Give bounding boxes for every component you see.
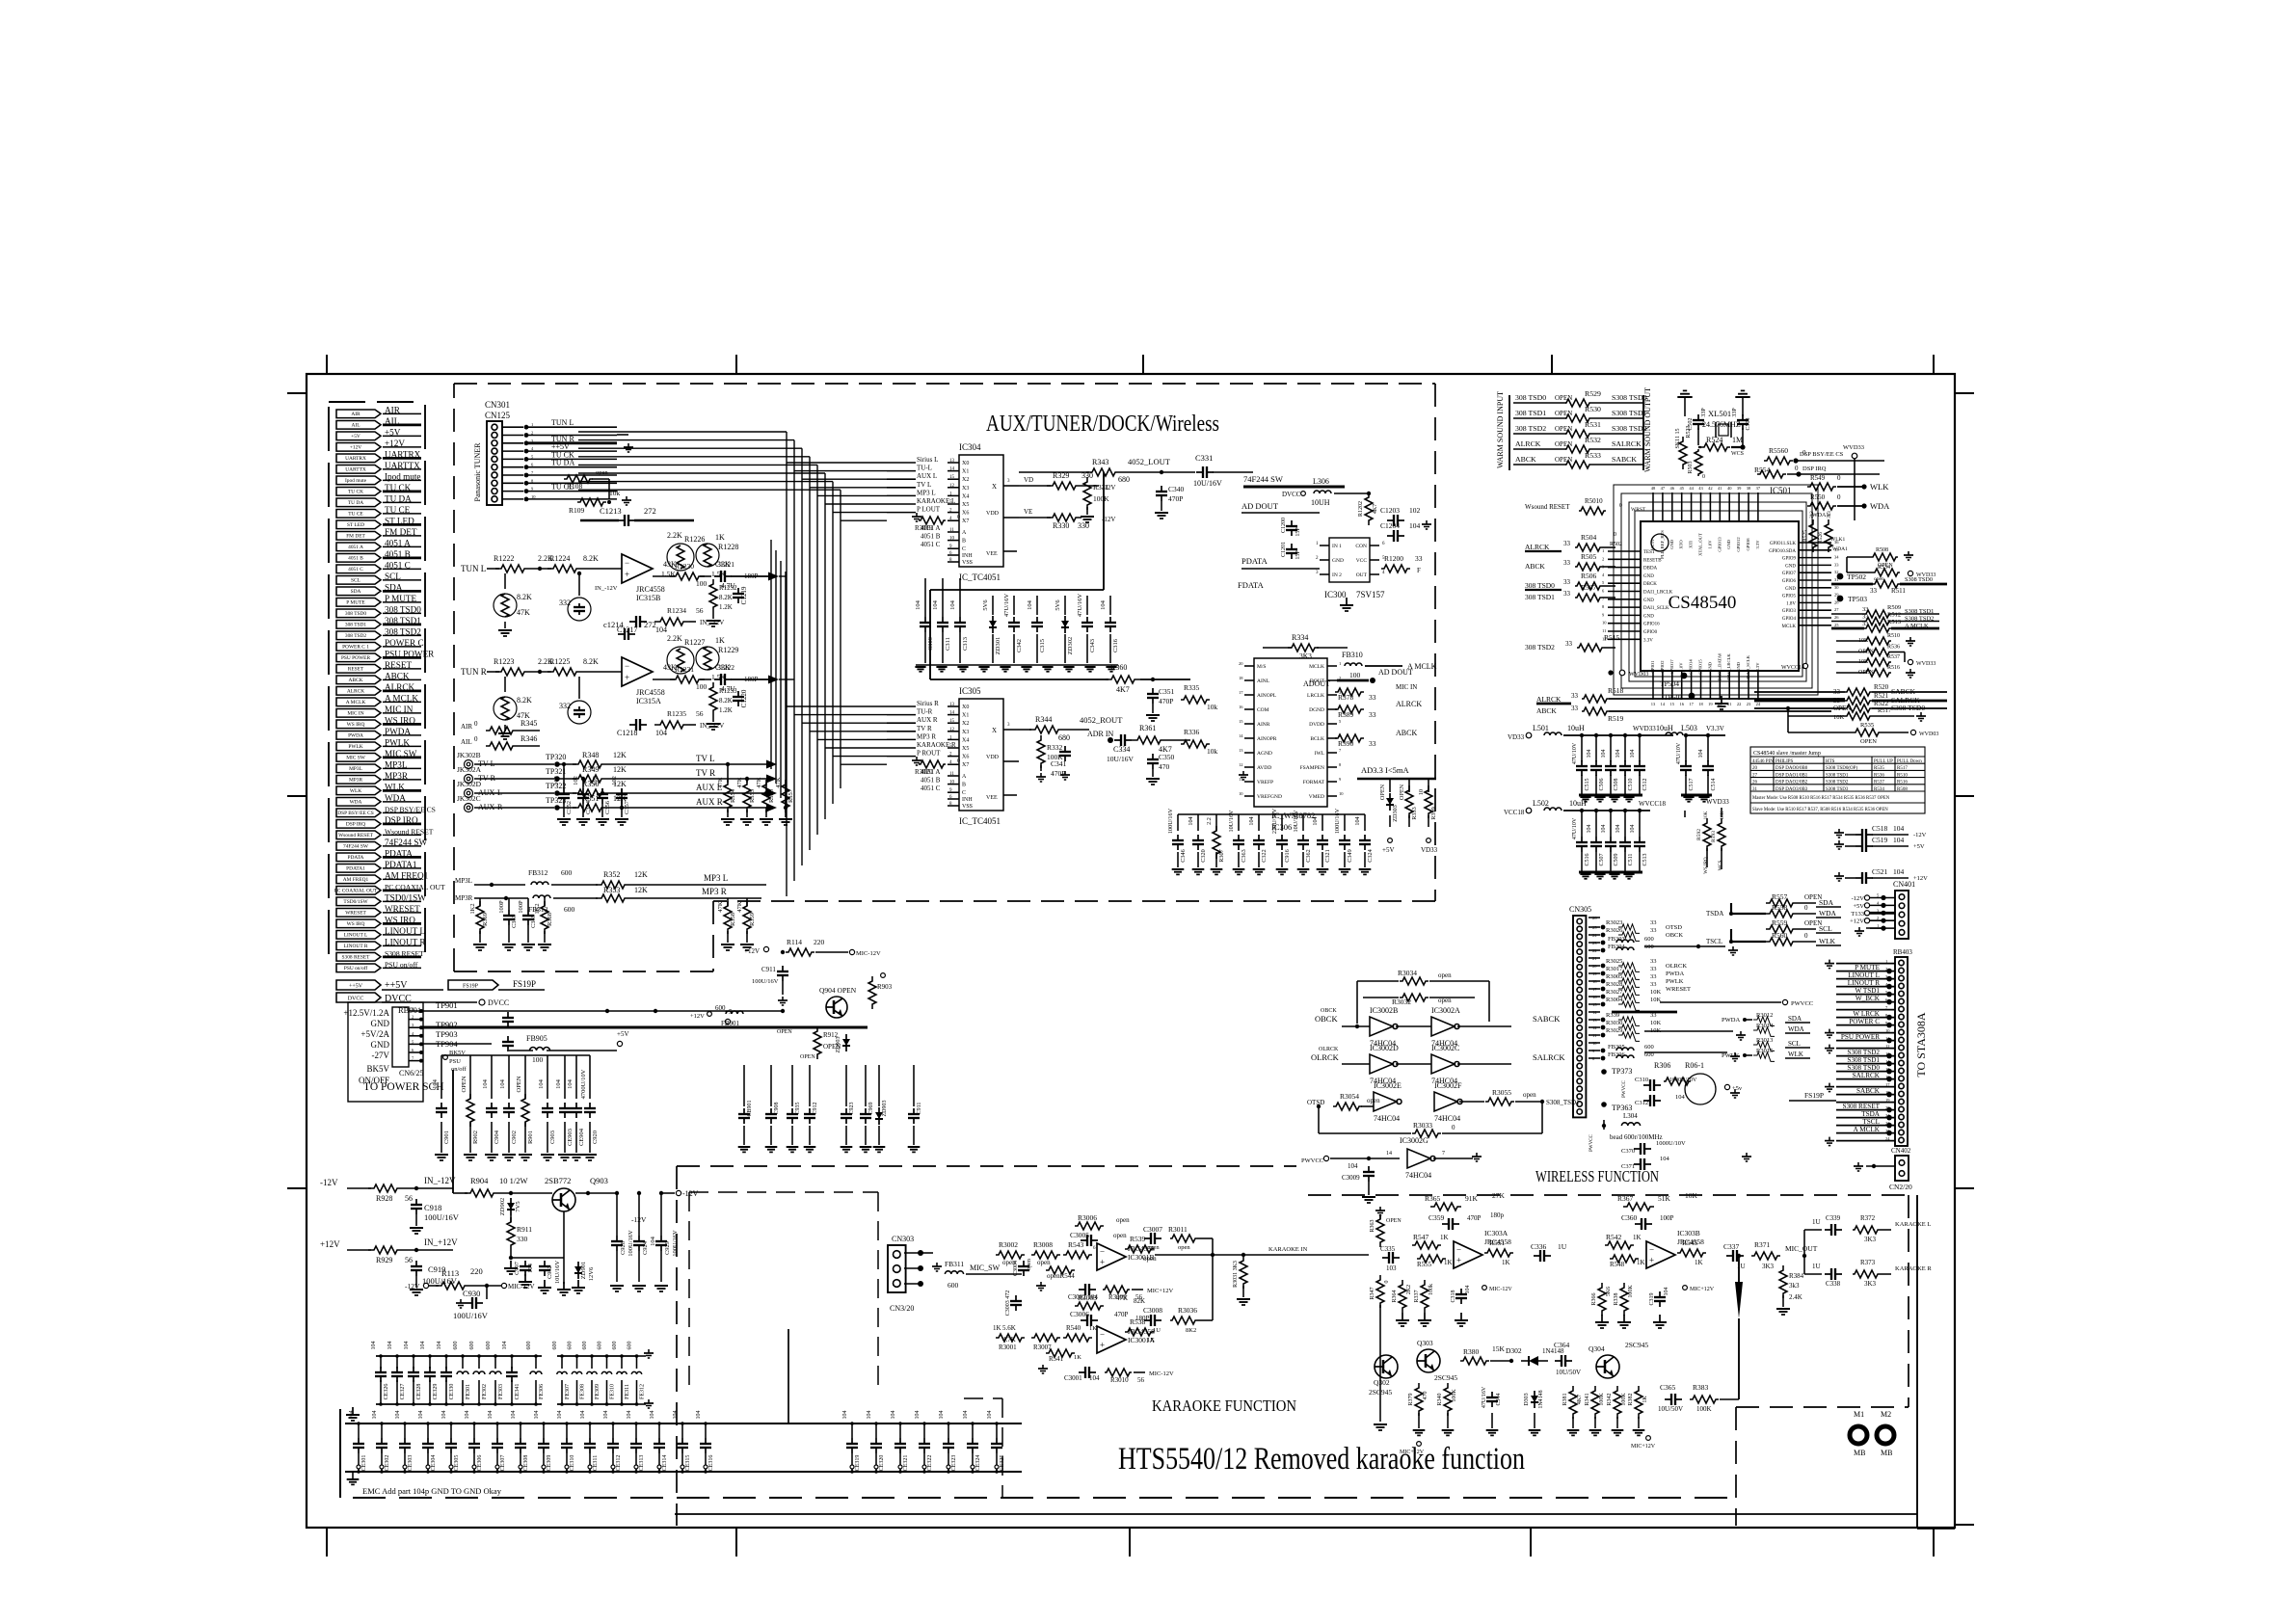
svg-text:45: 45: [1679, 486, 1684, 491]
svg-text:COM: COM: [1257, 707, 1269, 713]
svg-text:R3012: R3012: [1756, 1012, 1773, 1019]
svg-text:MIC SW: MIC SW: [346, 756, 366, 761]
svg-text:WRESET: WRESET: [345, 911, 366, 917]
svg-text:CN3/20: CN3/20: [890, 1304, 914, 1313]
svg-text:FS19P: FS19P: [513, 979, 536, 989]
svg-text:41: 41: [1718, 486, 1722, 491]
svg-text:FB311: FB311: [945, 1260, 964, 1268]
svg-text:C357: C357: [624, 800, 630, 814]
svg-text:74F244 SW: 74F244 SW: [343, 844, 369, 850]
svg-text:R3028: R3028: [1606, 981, 1622, 988]
svg-text:2.2K: 2.2K: [667, 531, 682, 540]
svg-text:C344: C344: [1496, 1393, 1502, 1405]
svg-text:TP903: TP903: [436, 1029, 458, 1039]
svg-text:POWER C 1: POWER C 1: [342, 645, 369, 651]
svg-text:CN305: CN305: [1569, 905, 1591, 914]
svg-text:100: 100: [1349, 671, 1361, 679]
svg-text:46: 46: [1670, 486, 1675, 491]
svg-text:104: 104: [482, 1078, 489, 1089]
svg-text:C912: C912: [813, 1102, 818, 1114]
svg-text:XTI: XTI: [1689, 541, 1694, 548]
svg-text:WS IRQ: WS IRQ: [347, 722, 365, 728]
svg-text:-12V: -12V: [320, 1178, 338, 1187]
svg-text:C511: C511: [1628, 854, 1634, 866]
svg-text:T133: T133: [1851, 911, 1864, 918]
svg-text:C513: C513: [1642, 853, 1648, 865]
svg-text:ADR IN: ADR IN: [1087, 730, 1114, 738]
svg-text:GPIO7: GPIO7: [1782, 572, 1797, 576]
svg-text:Q904 OPEN: Q904 OPEN: [819, 986, 857, 995]
svg-text:R340: R340: [1437, 1393, 1443, 1405]
svg-text:104: 104: [488, 1411, 494, 1420]
svg-text:C930: C930: [463, 1289, 480, 1298]
svg-text:600: 600: [598, 1342, 603, 1350]
svg-text:CN301: CN301: [485, 400, 510, 410]
svg-text:FE302: FE302: [482, 1384, 488, 1399]
svg-text:CE330: CE330: [449, 1384, 455, 1400]
svg-text:R593: R593: [1711, 831, 1717, 842]
svg-text:1K: 1K: [1695, 1259, 1703, 1266]
svg-text:ABCK: ABCK: [1396, 729, 1417, 737]
svg-text:TP373: TP373: [1612, 1067, 1632, 1076]
svg-text:39: 39: [1737, 486, 1742, 491]
svg-text:KARAOKE FUNCTION: KARAOKE FUNCTION: [1152, 1397, 1296, 1415]
svg-text:IC3002E: IC3002E: [1374, 1081, 1402, 1090]
svg-text:104: 104: [1615, 750, 1621, 758]
svg-text:WARM SOUND OUTPUT: WARM SOUND OUTPUT: [1643, 387, 1652, 472]
svg-text:C315: C315: [1039, 639, 1046, 652]
svg-text:RESET: RESET: [348, 667, 364, 673]
svg-text:2SB772: 2SB772: [545, 1176, 571, 1185]
svg-text:ALRCK: ALRCK: [1525, 543, 1550, 551]
svg-text:47U/10V: 47U/10V: [1676, 742, 1682, 764]
svg-text:R5010: R5010: [1585, 497, 1603, 505]
svg-text:X6: X6: [962, 755, 969, 760]
svg-text:C349: C349: [1347, 849, 1353, 862]
svg-text:R382: R382: [1628, 1393, 1634, 1405]
svg-text:CE320: CE320: [879, 1455, 885, 1472]
svg-text:CE307: CE307: [500, 1455, 506, 1472]
svg-text:GND: GND: [1643, 599, 1654, 603]
svg-text:PDATA: PDATA: [348, 855, 364, 861]
svg-text:33: 33: [1369, 710, 1376, 719]
svg-text:0: 0: [1384, 1281, 1390, 1284]
svg-text:UARTRX: UARTRX: [345, 456, 366, 462]
svg-text:DBDA: DBDA: [1643, 567, 1658, 572]
svg-text:C918: C918: [424, 1203, 441, 1212]
svg-text:PWDA: PWDA: [1666, 971, 1684, 977]
svg-text:102: 102: [553, 776, 560, 785]
svg-text:BCLK: BCLK: [1310, 736, 1324, 742]
svg-text:104: 104: [1188, 816, 1194, 825]
svg-text:4700U/10V: 4700U/10V: [580, 1069, 587, 1099]
svg-text:104: 104: [418, 1411, 424, 1420]
svg-text:1K: 1K: [1089, 1325, 1097, 1332]
svg-text:100K: 100K: [1452, 1389, 1457, 1402]
svg-text:IWL: IWL: [1315, 751, 1325, 757]
svg-text:Q903: Q903: [590, 1176, 608, 1185]
svg-text:R06-1: R06-1: [1685, 1061, 1704, 1070]
svg-text:SDA: SDA: [1788, 1015, 1802, 1023]
svg-text:47K: 47K: [517, 608, 530, 617]
svg-text:4K7: 4K7: [1373, 504, 1378, 514]
svg-text:8K2: 8K2: [1186, 1327, 1196, 1334]
svg-text:17: 17: [1689, 702, 1694, 706]
svg-text:102: 102: [573, 776, 579, 785]
svg-text:220: 220: [814, 938, 825, 946]
svg-text:4K7: 4K7: [1116, 685, 1130, 694]
svg-text:BK5V: BK5V: [366, 1064, 389, 1074]
svg-text:33: 33: [1571, 692, 1579, 700]
svg-text:44: 44: [1689, 486, 1694, 491]
svg-text:VSS: VSS: [962, 560, 973, 566]
svg-text:X: X: [992, 483, 997, 491]
svg-text:2K2: 2K2: [1406, 1285, 1412, 1294]
svg-text:15: 15: [949, 719, 955, 724]
svg-text:IC303A: IC303A: [1484, 1229, 1508, 1237]
svg-text:R902: R902: [472, 1131, 479, 1144]
svg-text:47K: 47K: [717, 777, 724, 788]
svg-text:FB901: FB901: [721, 1020, 740, 1027]
svg-text:104: 104: [557, 1411, 563, 1420]
svg-text:17: 17: [1885, 1082, 1890, 1087]
svg-text:R306: R306: [1654, 1061, 1670, 1070]
svg-text:R3004: R3004: [1606, 997, 1623, 1003]
svg-text:CE325: CE325: [1000, 1455, 1005, 1472]
svg-text:FS19P: FS19P: [1804, 1091, 1824, 1100]
svg-text:C901: C901: [443, 1131, 450, 1144]
svg-text:S308 TSD1: S308 TSD1: [1847, 1056, 1880, 1064]
svg-text:R535: R535: [1860, 722, 1874, 729]
svg-text:12K: 12K: [634, 870, 648, 879]
svg-text:600: 600: [582, 1342, 588, 1350]
svg-text:VDD: VDD: [986, 755, 1000, 760]
svg-text:C339: C339: [1826, 1214, 1841, 1222]
svg-text:VE: VE: [1024, 508, 1032, 516]
svg-text:POWER C: POWER C: [1849, 1018, 1880, 1025]
svg-text:104: 104: [527, 1263, 534, 1273]
svg-text:MIC-12V: MIC-12V: [856, 950, 881, 957]
svg-text:3K3: 3K3: [1864, 1280, 1877, 1288]
svg-text:C517: C517: [1689, 778, 1695, 790]
svg-text:100U/16V: 100U/16V: [752, 978, 779, 985]
svg-text:X7: X7: [962, 519, 969, 524]
svg-text:MIC-12V: MIC-12V: [1149, 1370, 1174, 1377]
svg-text:100U/16V: 100U/16V: [1167, 808, 1174, 834]
svg-text:10k: 10k: [1207, 747, 1218, 756]
svg-text:OPEN: OPEN: [461, 1076, 467, 1092]
svg-text:20: 20: [1239, 661, 1243, 666]
svg-text:WLK: WLK: [1788, 1051, 1803, 1058]
svg-text:WVD33: WVD33: [1916, 661, 1936, 667]
svg-text:AIL: AIL: [461, 738, 472, 746]
svg-text:100P: 100P: [498, 900, 505, 914]
svg-text:CN303: CN303: [892, 1235, 914, 1243]
svg-text:13: 13: [1239, 748, 1243, 753]
svg-text:FB310: FB310: [1342, 651, 1363, 659]
svg-text:CN125: CN125: [485, 411, 511, 420]
svg-text:FM DET: FM DET: [346, 534, 365, 540]
svg-text:C313: C313: [962, 637, 969, 651]
svg-text:100: 100: [696, 579, 707, 588]
svg-text:R3001: R3001: [999, 1344, 1017, 1351]
svg-text:33: 33: [1650, 927, 1657, 934]
svg-text:104: 104: [395, 1411, 401, 1420]
svg-text:MP3R: MP3R: [455, 894, 473, 902]
svg-text:WDA: WDA: [1788, 1025, 1804, 1033]
svg-text:1N4148: 1N4148: [1538, 1390, 1544, 1408]
svg-text:WLK: WLK: [1819, 937, 1836, 945]
svg-text:MIC-12V: MIC-12V: [508, 1283, 535, 1290]
svg-text:R3002: R3002: [999, 1240, 1018, 1249]
svg-text:OTSD: OTSD: [1666, 924, 1682, 931]
svg-text:VREFP: VREFP: [1257, 780, 1273, 785]
svg-text:CE326: CE326: [384, 1384, 389, 1400]
svg-text:OBCK: OBCK: [1315, 1014, 1338, 1024]
svg-text:OPEN: OPEN: [1860, 738, 1877, 745]
svg-text:R341: R341: [1585, 1393, 1590, 1405]
svg-text:8.2K: 8.2K: [719, 697, 733, 705]
svg-text:33: 33: [1870, 587, 1878, 595]
svg-text:AINL: AINL: [1257, 678, 1270, 684]
svg-text:C3007: C3007: [1143, 1225, 1162, 1234]
svg-text:KARAOKE IN: KARAOKE IN: [1268, 1246, 1308, 1253]
svg-text:FB312: FB312: [528, 868, 548, 877]
svg-text:C518: C518: [1872, 824, 1888, 833]
svg-text:OPEN: OPEN: [1399, 784, 1405, 800]
svg-text:104: 104: [1893, 824, 1905, 833]
svg-text:MIC_SW: MIC_SW: [970, 1264, 1001, 1272]
svg-text:MIC+12V: MIC+12V: [1690, 1287, 1715, 1292]
svg-text:CE324: CE324: [975, 1455, 981, 1472]
svg-text:DBCK: DBCK: [1643, 582, 1657, 587]
svg-text:308 TSD2: 308 TSD2: [1515, 424, 1546, 433]
svg-text:8.2K: 8.2K: [719, 594, 733, 601]
svg-text:33: 33: [1650, 919, 1657, 926]
svg-text:MP3 R: MP3 R: [702, 887, 727, 896]
svg-text:1K: 1K: [1502, 1259, 1510, 1266]
svg-text:R506: R506: [1581, 572, 1597, 580]
svg-text:332: 332: [559, 702, 571, 710]
svg-text:CS48540 slave /master Jump: CS48540 slave /master Jump: [1753, 751, 1821, 757]
svg-text:ZD903: ZD903: [882, 1101, 888, 1117]
svg-text:33: 33: [1650, 966, 1657, 972]
svg-text:SALRCK: SALRCK: [1533, 1052, 1565, 1062]
svg-text:104: 104: [1893, 836, 1905, 844]
svg-text:600: 600: [1644, 1044, 1654, 1051]
svg-text:C321: C321: [1324, 849, 1331, 862]
svg-text:IC3002G: IC3002G: [1400, 1136, 1428, 1145]
svg-text:470P: 470P: [1467, 1214, 1482, 1222]
svg-text:R3029: R3029: [1606, 1027, 1622, 1034]
svg-text:WARM SOUND INPUT: WARM SOUND INPUT: [1496, 391, 1505, 468]
svg-text:PLL_REF_RES: PLL_REF_RES: [1660, 530, 1665, 559]
svg-text:600: 600: [948, 1281, 959, 1290]
svg-text:S308 TSD0: S308 TSD0: [1612, 393, 1647, 402]
svg-text:R1230: R1230: [675, 562, 694, 571]
svg-text:L304: L304: [1623, 1112, 1638, 1120]
svg-text:R334: R334: [1292, 633, 1308, 642]
svg-text:IC3002F: IC3002F: [1434, 1081, 1462, 1090]
svg-text:FB305: FB305: [1608, 1044, 1625, 1051]
svg-text:10U/16V: 10U/16V: [1107, 755, 1135, 763]
svg-text:VD: VD: [1024, 476, 1033, 484]
svg-text:R551: R551: [1489, 1238, 1506, 1247]
svg-text:MB: MB: [1854, 1449, 1865, 1457]
svg-text:A MCLK: A MCLK: [1854, 1126, 1881, 1133]
svg-text:C318: C318: [1451, 1290, 1456, 1302]
svg-text:LRCLK: LRCLK: [1307, 693, 1324, 699]
svg-text:104: 104: [987, 1411, 993, 1420]
svg-text:X0: X0: [962, 705, 969, 710]
svg-text:LINOUT R: LINOUT R: [1848, 979, 1880, 987]
svg-text:AIR: AIR: [351, 412, 360, 417]
svg-text:C506: C506: [1599, 778, 1605, 790]
svg-text:104: 104: [1660, 1156, 1670, 1162]
svg-text:−: −: [625, 558, 629, 568]
svg-text:C1203: C1203: [1380, 506, 1400, 515]
svg-text:R512: R512: [1887, 612, 1901, 619]
svg-text:C508: C508: [1614, 778, 1619, 790]
svg-text:IN 1: IN 1: [1332, 544, 1342, 549]
svg-text:JRC4558: JRC4558: [636, 585, 665, 594]
svg-text:17: 17: [1239, 690, 1243, 695]
svg-text:AUX R: AUX R: [696, 797, 723, 807]
svg-text:0: 0: [1804, 932, 1808, 940]
svg-text:R358: R358: [730, 913, 736, 926]
svg-text:IC_TC4051: IC_TC4051: [959, 572, 1001, 582]
svg-text:VD33: VD33: [1421, 846, 1438, 854]
svg-text:CE313: CE313: [639, 1455, 645, 1472]
svg-text:R929: R929: [376, 1256, 392, 1264]
svg-text:C916: C916: [1284, 849, 1291, 862]
svg-text:P MUTE: P MUTE: [1855, 964, 1880, 971]
svg-text:47K: 47K: [736, 777, 743, 788]
svg-text:104: 104: [1893, 867, 1905, 876]
svg-text:10: 10: [949, 537, 955, 542]
svg-text:104: 104: [1587, 825, 1592, 834]
svg-text:SDA: SDA: [351, 589, 361, 595]
svg-text:8.2K: 8.2K: [583, 657, 599, 666]
svg-text:LINOUT L: LINOUT L: [1848, 971, 1880, 979]
svg-text:IN_+12V: IN_+12V: [424, 1237, 458, 1247]
svg-text:WVD33: WVD33: [1843, 444, 1864, 451]
svg-text:R530: R530: [1585, 405, 1601, 413]
svg-text:FE310: FE310: [610, 1384, 616, 1399]
svg-text:R3032: R3032: [1392, 998, 1411, 1006]
svg-text:IC315B: IC315B: [636, 594, 660, 602]
svg-text:WDA: WDA: [1819, 909, 1836, 918]
svg-text:12V6: 12V6: [588, 1266, 595, 1281]
svg-text:R1200: R1200: [1384, 554, 1403, 563]
svg-text:AIL: AIL: [352, 423, 360, 429]
svg-text:FB304: FB304: [1608, 944, 1625, 950]
svg-text:FE303: FE303: [498, 1384, 504, 1399]
svg-text:R365: R365: [1425, 1194, 1441, 1203]
svg-text:4051 C: 4051 C: [348, 567, 363, 572]
svg-text:PSU on/off: PSU on/off: [344, 965, 368, 971]
svg-text:C356: C356: [604, 800, 611, 814]
svg-text:2SC945: 2SC945: [1625, 1341, 1648, 1349]
svg-text:CE305: CE305: [454, 1455, 460, 1472]
svg-text:C903: C903: [549, 1131, 556, 1144]
svg-text:WRST: WRST: [1631, 507, 1646, 513]
svg-text:GPIO0: GPIO0: [1643, 630, 1658, 635]
svg-text:C312: C312: [1635, 1100, 1648, 1106]
svg-text:R348: R348: [582, 751, 599, 759]
svg-text:104: 104: [538, 1078, 545, 1089]
svg-text:GND: GND: [371, 1019, 390, 1028]
svg-text:P MUTE: P MUTE: [346, 600, 365, 606]
svg-text:M/S: M/S: [1257, 664, 1266, 670]
svg-text:R3034: R3034: [1398, 969, 1417, 977]
svg-text:PWVCC: PWVCC: [1301, 1157, 1323, 1164]
svg-text:MP3 R: MP3 R: [917, 732, 936, 740]
svg-text:R354: R354: [730, 788, 736, 803]
svg-text:1: 1: [1602, 548, 1604, 553]
svg-text:C319: C319: [1649, 1292, 1655, 1305]
svg-text:bead 600r/100MHz: bead 600r/100MHz: [1610, 1133, 1663, 1141]
svg-text:C310: C310: [1635, 1077, 1648, 1083]
svg-text:WDA: WDA: [350, 800, 362, 806]
svg-text:R555: R555: [1417, 1261, 1432, 1268]
svg-text:X6: X6: [962, 511, 969, 517]
svg-text:AD DOUT: AD DOUT: [1378, 668, 1413, 677]
svg-text:VCC: VCC: [1356, 558, 1368, 564]
svg-text:R333: R333: [1411, 807, 1418, 819]
svg-text:TSDA: TSDA: [1861, 1110, 1881, 1118]
svg-text:R508: R508: [1876, 547, 1888, 553]
svg-text:33: 33: [1415, 554, 1423, 563]
svg-text:56: 56: [696, 606, 704, 615]
svg-text:R355: R355: [749, 789, 756, 803]
svg-text:D302: D302: [1506, 1346, 1522, 1355]
svg-text:33: 33: [1834, 562, 1839, 567]
svg-text:S308 RESET: S308 RESET: [1842, 1103, 1880, 1110]
svg-text:7SV157: 7SV157: [1356, 590, 1385, 599]
svg-text:19: 19: [1708, 702, 1713, 706]
svg-text:FE311: FE311: [625, 1384, 630, 1399]
svg-text:KARAOKE L: KARAOKE L: [917, 497, 955, 505]
svg-text:104: 104: [1354, 816, 1361, 825]
svg-text:1K2: 1K2: [534, 903, 541, 914]
svg-text:SABCK: SABCK: [1856, 1087, 1881, 1095]
svg-text:WVCC18: WVCC18: [1781, 665, 1804, 671]
svg-text:SALRCK: SALRCK: [1612, 439, 1642, 448]
svg-text:104: 104: [627, 1411, 632, 1420]
svg-text:600: 600: [561, 868, 573, 877]
svg-text:WRESET: WRESET: [1666, 986, 1691, 993]
svg-text:100U/16V: 100U/16V: [627, 1230, 634, 1257]
svg-text:R519: R519: [1608, 714, 1624, 723]
svg-text:TV R: TV R: [696, 768, 715, 778]
svg-text:C929: C929: [664, 1241, 671, 1255]
svg-text:104: 104: [963, 1411, 969, 1420]
svg-text:+5V: +5V: [351, 434, 360, 439]
svg-text:A: A: [962, 530, 967, 536]
svg-text:CE322: CE322: [927, 1455, 933, 1472]
svg-text:CS48540: CS48540: [1669, 593, 1737, 613]
svg-text:10U/50V: 10U/50V: [1556, 1369, 1581, 1376]
svg-text:R381: R381: [1562, 1393, 1568, 1405]
svg-text:TU CE: TU CE: [348, 512, 363, 518]
svg-text:R3027: R3027: [1606, 989, 1623, 996]
svg-text:GND: GND: [371, 1040, 390, 1050]
svg-text:R529: R529: [1585, 389, 1601, 398]
svg-text:R3026: R3026: [1606, 927, 1623, 934]
svg-text:DSP BSY/EE CS: DSP BSY/EE CS: [337, 811, 374, 816]
svg-text:TO STA308A: TO STA308A: [1914, 1012, 1928, 1077]
